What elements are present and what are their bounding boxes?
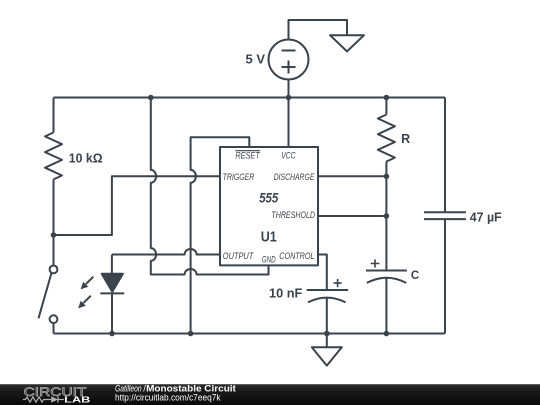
svg-text:555: 555 [259, 191, 278, 206]
node threshold [384, 213, 390, 219]
node led-bottom [109, 331, 115, 337]
svg-text:CONTROL: CONTROL [279, 251, 314, 262]
wire right branch top lead to 47uF [444, 98, 446, 213]
wire top VCC rail [54, 97, 446, 99]
resistor R [378, 98, 395, 177]
node switch-top [51, 232, 57, 238]
wire OUTPUT line with hop over x=190.6 [112, 249, 220, 255]
ground (top right) [330, 35, 364, 51]
capacitor 47 uF [424, 212, 466, 219]
capacitor 10 nF (polarized) [307, 279, 349, 334]
op-amp U1 555 timer box [220, 147, 318, 265]
node rail-V1 [286, 95, 292, 101]
svg-text:LAB: LAB [64, 394, 90, 404]
wire R bottom to threshold node [385, 176, 387, 216]
svg-text:THRESHOLD: THRESHOLD [271, 210, 315, 221]
wire VCC pin lead [288, 98, 290, 148]
svg-text:U1: U1 [261, 230, 277, 246]
svg-text:47 µF: 47 µF [470, 209, 502, 224]
LED D1 [78, 255, 124, 334]
pin label RESET (with overline) [235, 151, 260, 162]
svg-text:http://circuitlab.com/c7eeq7k: http://circuitlab.com/c7eeq7k [115, 393, 221, 403]
wire CONTROL lead to 10nF [318, 255, 327, 291]
wire V1 bottom lead [288, 80, 290, 98]
svg-text:GND: GND [262, 255, 276, 265]
svg-text:VCC: VCC [281, 151, 295, 162]
voltage source V1 5V [269, 40, 309, 80]
wire RESET net x=190.6 [191, 137, 250, 333]
CircuitLab logo zigzag diode [23, 396, 64, 402]
node rail-R [384, 95, 390, 101]
svg-text:10 kΩ: 10 kΩ [69, 150, 103, 165]
svg-text:DISCHARGE: DISCHARGE [274, 172, 315, 183]
switch SW1 [39, 235, 58, 334]
node reset-bottom [188, 331, 194, 337]
node rail-left [148, 95, 154, 101]
ground (bottom) [312, 334, 342, 366]
capacitor C (polarized) [366, 259, 407, 333]
svg-text:OUTPUT: OUTPUT [223, 251, 254, 262]
wire threshold node down to capacitor C [385, 216, 387, 271]
node discharge [384, 174, 390, 180]
svg-text:C: C [411, 270, 419, 282]
svg-text:RESET: RESET [235, 151, 260, 162]
node capC-bottom [384, 331, 390, 337]
node cap10n-bottom [324, 331, 330, 337]
wire V1 top to ground [289, 20, 348, 40]
footer bar [0, 384, 540, 405]
svg-text:TRIGGER: TRIGGER [223, 172, 255, 183]
wire THRESHOLD lead [318, 215, 386, 217]
wire bottom ground rail [54, 333, 446, 335]
resistor R3 10 kOhm [45, 98, 62, 236]
wire trigger net from switch node to TRIGGER pin [54, 176, 221, 235]
svg-text:10 nF: 10 nF [269, 286, 302, 301]
wire right branch bottom lead from 47uF [444, 219, 446, 333]
wire DISCHARGE lead [318, 175, 386, 177]
svg-text:R: R [401, 132, 410, 146]
svg-text:5 V: 5 V [246, 51, 266, 66]
wire vertical net x=151 with hops, to GND pin [151, 98, 269, 275]
